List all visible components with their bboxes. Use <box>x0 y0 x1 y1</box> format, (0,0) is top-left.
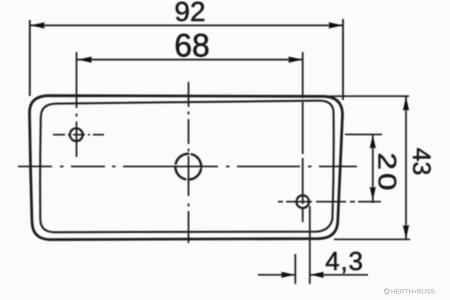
svg-text:43: 43 <box>407 148 435 176</box>
svg-text:68: 68 <box>174 28 210 64</box>
svg-text:HERTH+BUSS: HERTH+BUSS <box>391 289 435 296</box>
svg-text:4,3: 4,3 <box>325 246 364 276</box>
svg-text:20: 20 <box>373 153 401 194</box>
svg-text:92: 92 <box>174 0 205 27</box>
